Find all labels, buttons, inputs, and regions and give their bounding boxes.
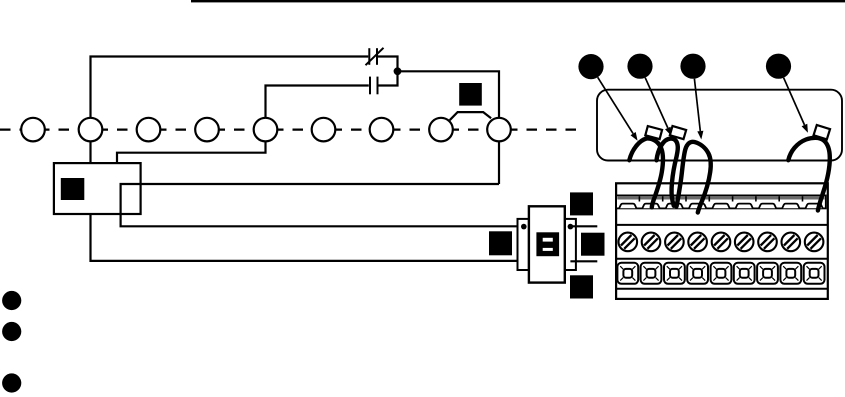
wire: box loop to T9 and to battery (upper pair) xyxy=(121,184,524,226)
wire clamp xyxy=(806,204,823,209)
screw xyxy=(688,233,707,252)
terminal circle T6 xyxy=(312,118,336,142)
enclosure (rounded) xyxy=(597,90,842,161)
callout square 4 (above right of battery) xyxy=(570,192,593,215)
terminal circle T1 xyxy=(21,118,45,142)
wire: box bottom to battery (lower) xyxy=(91,214,524,261)
junction box xyxy=(54,163,141,214)
callout square 6 (below right of battery) xyxy=(570,275,593,298)
terminal socket xyxy=(687,263,708,284)
terminal socket xyxy=(711,263,732,284)
wire clamp xyxy=(642,204,659,209)
callout bullet 3 xyxy=(680,54,705,79)
battery label square xyxy=(536,232,559,256)
terminal socket xyxy=(780,263,801,284)
terminal circle T8 xyxy=(429,118,453,142)
callout bullet 4 xyxy=(766,54,791,79)
callout square 2 (in junction box) xyxy=(61,178,85,200)
callout bullet 2 xyxy=(627,54,652,79)
arrow 4 xyxy=(784,78,805,125)
strip divider tick xyxy=(685,196,687,201)
list bullet 3 xyxy=(2,373,21,392)
wire: battery right upper xyxy=(570,225,597,227)
dashed bus line xyxy=(0,129,582,131)
battery right tab xyxy=(565,219,576,270)
callout bullet 1 xyxy=(578,54,603,79)
wire clamp xyxy=(782,204,799,209)
screw xyxy=(758,233,777,252)
wire clamp xyxy=(689,204,706,209)
wire: capacitor to junction xyxy=(378,71,397,85)
screw xyxy=(642,233,661,252)
callout square 3 (left of battery) xyxy=(489,231,512,255)
arrow 3 xyxy=(694,79,700,131)
wire W3 (loop slot 3 to slot 4) xyxy=(677,142,711,213)
NC contact (crossed capacitor) xyxy=(368,48,370,65)
node: battery left junction xyxy=(521,224,527,230)
wire: T5 down into junction box xyxy=(117,141,266,163)
block line below sockets xyxy=(616,288,828,290)
junction dot xyxy=(394,67,402,75)
wire: NC contact to junction xyxy=(378,57,398,72)
wire clamp xyxy=(666,204,683,209)
list bullet 2 xyxy=(2,322,21,341)
wire flag F4 xyxy=(814,125,831,139)
battery left tab xyxy=(518,219,529,270)
block line above screws xyxy=(616,224,828,226)
terminal block wire-entry strip xyxy=(616,195,826,208)
wire clamp xyxy=(759,204,776,209)
wire: junction to T9 top xyxy=(399,71,499,118)
callout square 1 (above jumper) xyxy=(459,83,482,106)
terminal circle T7 xyxy=(370,118,394,142)
block line below screws xyxy=(616,258,828,260)
list bullet 1 xyxy=(2,291,21,310)
terminal circle T5 xyxy=(254,118,278,142)
terminal circle T9 xyxy=(487,118,511,142)
terminal socket xyxy=(641,263,662,284)
screw xyxy=(712,233,731,252)
callout square 5 (right of battery) xyxy=(581,233,605,256)
wire clamp xyxy=(619,204,636,209)
terminal socket xyxy=(617,263,638,284)
wire W2 (flag F2, into slot 3) xyxy=(657,139,678,206)
wire W1 (flag F1, into slot 2) xyxy=(629,138,663,207)
top rule xyxy=(191,0,845,2)
screw xyxy=(665,233,684,252)
strip divider tick xyxy=(662,196,664,201)
strip divider tick xyxy=(755,196,757,201)
terminal socket xyxy=(664,263,685,284)
wire: T9 bottom down xyxy=(498,141,500,184)
jumper T8-T9 xyxy=(450,112,491,120)
wire: T2 down into junction box xyxy=(89,141,91,163)
screw xyxy=(619,233,638,252)
terminal circle T3 xyxy=(137,118,161,142)
wire: battery right lower xyxy=(570,260,597,262)
screw xyxy=(805,233,824,252)
arrow 1 xyxy=(598,77,633,133)
node: battery right junction xyxy=(568,224,574,230)
terminal socket xyxy=(734,263,755,284)
terminal socket xyxy=(804,263,825,284)
screw xyxy=(782,233,801,252)
strip divider tick xyxy=(732,196,734,201)
wire flag F1 xyxy=(645,126,662,139)
wire flag F2 xyxy=(670,126,686,139)
capacitor gap xyxy=(369,77,371,95)
wire clamp xyxy=(736,204,753,209)
wire W4 (flag F4, into slot 9) xyxy=(788,138,830,211)
terminal block body xyxy=(616,183,828,299)
wire: T2 up to NC contact xyxy=(91,57,369,118)
terminal circle T2 xyxy=(79,118,103,142)
arrow 2 xyxy=(645,78,668,128)
terminal circle T4 xyxy=(195,118,219,142)
terminal socket xyxy=(757,263,778,284)
strip divider tick xyxy=(638,196,640,201)
wire clamp xyxy=(712,204,729,209)
strip divider tick xyxy=(778,196,780,201)
strip divider tick xyxy=(802,196,804,201)
screw xyxy=(735,233,754,252)
wire: T5 up to capacitor xyxy=(266,86,369,118)
battery body xyxy=(529,206,565,282)
strip divider tick xyxy=(708,196,710,201)
